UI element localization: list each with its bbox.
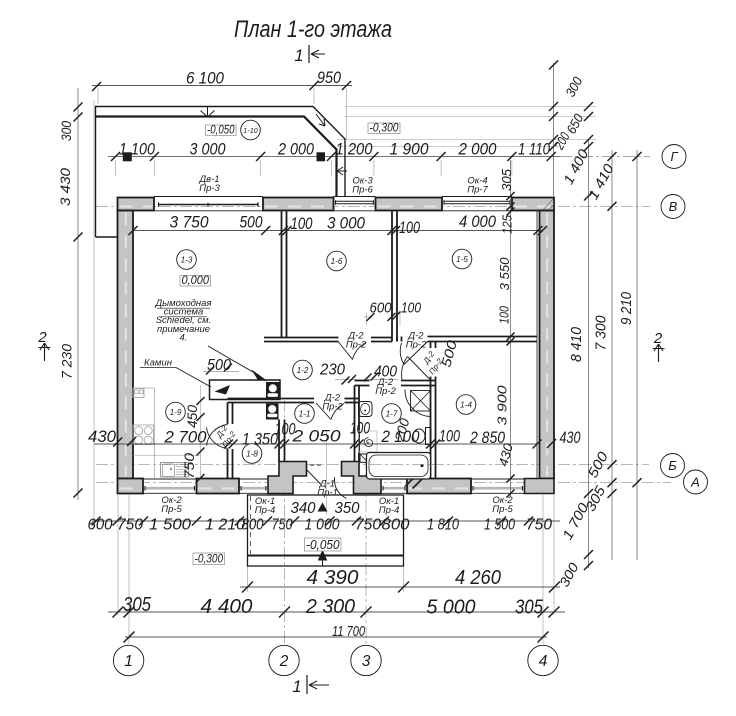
top wall block C (376, 198, 443, 211)
level -0,050 terrace (206, 125, 237, 136)
svg-text:Пр-5: Пр-5 (492, 504, 513, 515)
terrace entry arrow (201, 107, 215, 117)
svg-text:2: 2 (37, 329, 47, 346)
porch step edge (248, 555, 404, 557)
dim row 6100/950 (92, 85, 352, 87)
svg-text:5 000: 5 000 (427, 597, 476, 619)
room tag 1-6 (327, 251, 347, 271)
svg-text:1-1: 1-1 (299, 410, 311, 419)
axis circle G (662, 145, 686, 169)
svg-text:8 410: 8 410 (569, 327, 585, 362)
window Ok-3 (334, 196, 376, 198)
bottom wall: left corner block (118, 479, 144, 494)
svg-text:2 000: 2 000 (458, 140, 497, 159)
window Ok-2 right (471, 478, 525, 480)
svg-text:100: 100 (399, 219, 421, 237)
svg-text:1-9: 1-9 (170, 408, 182, 417)
axis circle 2 (269, 645, 299, 675)
hall / vestibule wall (278, 420, 280, 462)
svg-text:Пр-2: Пр-2 (322, 402, 343, 413)
window Ok-1 right (381, 478, 407, 480)
level -0,300 top (368, 123, 400, 134)
axis circle 1 (113, 645, 143, 675)
svg-text:Пр-2: Пр-2 (346, 340, 367, 351)
bathtub (367, 453, 431, 480)
bottom wall block under hall (197, 479, 240, 494)
axis circle A (684, 470, 708, 494)
svg-text:3 550: 3 550 (497, 257, 512, 291)
svg-text:4 390: 4 390 (307, 567, 359, 589)
svg-text:Пр-3: Пр-3 (199, 183, 220, 194)
axis B dash across tub (370, 464, 430, 466)
svg-text:950: 950 (317, 68, 341, 87)
svg-text:230: 230 (319, 362, 345, 379)
svg-text:1-7: 1-7 (386, 410, 398, 419)
svg-text:305: 305 (123, 594, 152, 616)
room tag 1-2 (293, 360, 313, 380)
svg-text:1-6: 1-6 (331, 257, 343, 266)
svg-text:100: 100 (439, 428, 461, 446)
corridor bottom wall (1-1 top) (228, 398, 315, 400)
svg-text:В: В (669, 199, 678, 214)
svg-text:План 1-го этажа: План 1-го этажа (234, 16, 392, 43)
wall 1-4 / bath right wall (430, 377, 432, 479)
kitchen / hall wall lower (227, 449, 229, 479)
svg-text:3 430: 3 430 (58, 167, 73, 206)
svg-text:3 750: 3 750 (170, 214, 210, 232)
svg-text:Пр-6: Пр-6 (352, 185, 373, 196)
room tag 1-5 (452, 249, 472, 269)
svg-text:11 700: 11 700 (332, 623, 365, 640)
svg-text:500: 500 (240, 214, 264, 232)
axis circle B (661, 454, 685, 478)
svg-text:1 110: 1 110 (518, 140, 550, 159)
right wall inner face line (536, 211, 538, 479)
washbasin (359, 402, 373, 417)
svg-text:125: 125 (501, 215, 515, 234)
room tag 1-7 (382, 404, 402, 424)
svg-text:100: 100 (291, 215, 314, 233)
top wall: corner block A (118, 198, 155, 211)
right chain x=588: 1400/8410/1700/300 (584, 102, 593, 570)
stove 4 burners (133, 425, 154, 445)
svg-text:750: 750 (526, 517, 552, 534)
svg-text:Пр-4: Пр-4 (255, 505, 276, 516)
svg-text:7 300: 7 300 (594, 316, 610, 351)
svg-text:340: 340 (291, 500, 316, 517)
terrace bottom edge wire (96, 236, 118, 238)
svg-text:1-4: 1-4 (460, 401, 472, 410)
bottom axis dim row 305/4400/2300/5000/305 (108, 611, 565, 613)
bottom interior dim row (92, 520, 560, 522)
svg-text:Пр-4: Пр-4 (379, 505, 400, 516)
overall dim 11700 (125, 636, 547, 638)
svg-text:4.: 4. (180, 332, 188, 343)
kitchen vertical chain 450/750 (197, 397, 205, 482)
interior dim row y=444: 430/2700/1350/100/2050/100/2100/100/2850/430 (94, 443, 537, 445)
1-4 top wall (428, 336, 538, 338)
svg-text:3 000: 3 000 (190, 140, 226, 159)
corridor top wall left flange (264, 337, 287, 339)
entrance left step block (268, 462, 307, 494)
wall between 1-3 and 1-6 (281, 212, 283, 338)
svg-text:1 500: 1 500 (484, 517, 515, 534)
svg-text:1: 1 (292, 677, 301, 696)
porch outline (248, 495, 404, 566)
washing machine outline (359, 431, 378, 452)
entrance right step block (342, 462, 382, 494)
svg-text:2 000: 2 000 (277, 140, 314, 159)
door 1-1 swing (316, 403, 344, 420)
svg-text:Пр-7: Пр-7 (467, 185, 488, 196)
door D-1 swing arc (334, 477, 346, 499)
svg-text:1-3: 1-3 (181, 256, 193, 265)
right chain x=637: 9210 (633, 152, 642, 487)
svg-text:-0,050: -0,050 (207, 125, 235, 137)
left vertical chain 300/3430/7230 (74, 103, 83, 498)
bottom wall block under bath/1-4 (407, 479, 471, 494)
svg-text:9 210: 9 210 (619, 292, 635, 325)
svg-text:2 700: 2 700 (163, 429, 207, 447)
svg-text:4 000: 4 000 (459, 213, 497, 231)
chimney unit lower (266, 404, 279, 420)
window Ok-1 left (239, 478, 268, 480)
svg-text:750: 750 (182, 452, 197, 479)
kitchen appliance box (133, 389, 144, 398)
svg-text:-0,050: -0,050 (306, 538, 340, 552)
right chain x=612: 1410/7300/500/305 (608, 152, 617, 498)
axis circle 4 (528, 645, 558, 675)
level -0,050 porch (305, 538, 342, 551)
axis and extension lines (78, 63, 671, 648)
roof slope arrow top (316, 114, 325, 126)
svg-text:100: 100 (350, 420, 371, 438)
right wall interior chain x=510 (510, 160, 512, 497)
svg-text:4 400: 4 400 (201, 596, 253, 618)
window Ok-4 (442, 196, 512, 198)
svg-text:1-5: 1-5 (456, 255, 468, 264)
svg-text:800: 800 (242, 517, 264, 534)
svg-text:-0,300: -0,300 (195, 554, 224, 566)
floor drain spiral (364, 438, 373, 447)
svg-text:1-2: 1-2 (297, 366, 309, 375)
terrace 1-10 outline (96, 107, 346, 238)
svg-text:Камин: Камин (144, 358, 173, 369)
svg-text:1 200: 1 200 (336, 140, 373, 159)
svg-text:1 210: 1 210 (205, 517, 245, 534)
svg-text:1 900: 1 900 (390, 140, 429, 159)
wall between 1-6 and 1-5 (391, 212, 393, 342)
svg-text:-0,300: -0,300 (370, 123, 400, 135)
svg-text:800: 800 (382, 517, 410, 534)
right wall (540, 211, 555, 479)
svg-text:1: 1 (294, 46, 303, 65)
kitchen sink (161, 463, 189, 478)
svg-text:1 000: 1 000 (305, 517, 340, 534)
svg-text:100: 100 (498, 306, 512, 324)
svg-text:2 050: 2 050 (291, 428, 341, 446)
svg-text:А: А (690, 475, 700, 490)
porch column left (123, 152, 132, 161)
svg-text:430: 430 (88, 428, 117, 446)
svg-text:Г: Г (670, 149, 678, 164)
porch dashed line (250, 496, 252, 554)
fireplace opening triangle (215, 385, 231, 395)
svg-text:Пр-2: Пр-2 (406, 340, 427, 351)
svg-text:Пр-5: Пр-5 (161, 504, 182, 515)
svg-text:305: 305 (500, 169, 514, 191)
svg-text:2 300: 2 300 (305, 596, 355, 618)
room tag 1-3 (177, 250, 197, 270)
right chain x=553: 300/650/200 (549, 61, 558, 152)
svg-text:4 260: 4 260 (455, 567, 501, 589)
svg-text:1-10: 1-10 (243, 126, 257, 135)
svg-text:3 000: 3 000 (327, 215, 366, 233)
1-5 bottom wall left stub (396, 337, 398, 342)
svg-text:430: 430 (560, 429, 582, 447)
bottom wall right corner block (525, 479, 555, 494)
axis circle 3 (351, 645, 381, 675)
bathroom top wall left stub (355, 380, 370, 382)
roof slope arrow side (337, 167, 347, 175)
svg-text:350: 350 (335, 500, 360, 517)
corridor top wall segment right (371, 337, 392, 339)
svg-text:7 230: 7 230 (60, 344, 75, 379)
corridor bottom wall right piece (345, 398, 360, 400)
vestibule right wall / 1-1,1-7 wall (354, 386, 356, 462)
porch column right (317, 152, 326, 161)
left wall (118, 211, 134, 479)
door D-1 threshold dashes (310, 464, 321, 466)
bathroom door leaf and swing (402, 357, 431, 381)
wall 1-4 left upper stub (430, 342, 432, 349)
level 0,000 room 1-3 (180, 276, 211, 287)
door D-1 leader (306, 469, 321, 485)
top wall corner block D with hatch (512, 198, 554, 211)
svg-text:100: 100 (401, 300, 422, 317)
svg-text:1 500: 1 500 (149, 517, 191, 534)
kitchen counter shelf line (133, 455, 201, 457)
svg-text:500: 500 (207, 357, 231, 374)
svg-text:1 810: 1 810 (427, 517, 459, 534)
svg-text:1-8: 1-8 (246, 450, 258, 459)
fireplace dim 500 (203, 371, 239, 373)
kitchen door swing (207, 425, 228, 449)
room tag 1-8 (242, 444, 262, 464)
dim row on axis G: 1100/3000/2000/1200/1900/2000/1110 (111, 152, 556, 161)
water heater box (360, 454, 368, 462)
room tag 1-4 (456, 395, 476, 415)
window Ok-2 left (143, 478, 197, 480)
svg-text:3: 3 (362, 653, 371, 670)
svg-text:0,000: 0,000 (181, 275, 209, 287)
axis circle V (661, 195, 685, 219)
kitchen / hall wall upper (227, 403, 229, 425)
room tag 1-9 (166, 402, 186, 422)
corridor top wall segment to 1-6 door (287, 337, 339, 339)
top wall block B (263, 198, 334, 211)
svg-text:4: 4 (539, 653, 548, 670)
door 1-5 leaf and swing (400, 342, 427, 365)
svg-text:300: 300 (59, 121, 74, 141)
fireplace body (210, 380, 281, 400)
room tag 1-10 (241, 120, 261, 140)
level -0,300 bottom (193, 553, 225, 565)
wall junction slashes (406, 474, 425, 489)
toilet (426, 428, 432, 445)
svg-text:750: 750 (355, 517, 381, 534)
room tag 1-1 (295, 404, 315, 424)
svg-text:450: 450 (185, 405, 200, 428)
door 1-6 swing (339, 342, 367, 360)
svg-text:Б: Б (668, 458, 677, 473)
top interior dim row 3750/500/100/3000/100/4000/125 (133, 230, 543, 232)
svg-text:2: 2 (279, 653, 289, 670)
porch entry arrow (319, 551, 327, 566)
svg-text:750: 750 (272, 517, 293, 534)
kitchen counter edge (154, 388, 156, 479)
svg-text:1: 1 (124, 653, 133, 670)
shower cabin (411, 391, 431, 412)
porch dim row 4390/4260 (240, 586, 560, 588)
svg-text:600: 600 (88, 517, 113, 534)
svg-text:Пр-2: Пр-2 (375, 386, 396, 397)
bathroom top wall right piece (401, 380, 436, 382)
svg-text:3 900: 3 900 (495, 385, 510, 426)
svg-text:305: 305 (515, 597, 544, 619)
chimney note leader (208, 346, 259, 376)
chimney unit upper (266, 382, 280, 399)
top wall door opening Dv-1 (154, 196, 263, 198)
svg-text:6 100: 6 100 (186, 69, 224, 88)
svg-text:Пр-1: Пр-1 (317, 488, 338, 499)
svg-text:750: 750 (117, 517, 143, 534)
